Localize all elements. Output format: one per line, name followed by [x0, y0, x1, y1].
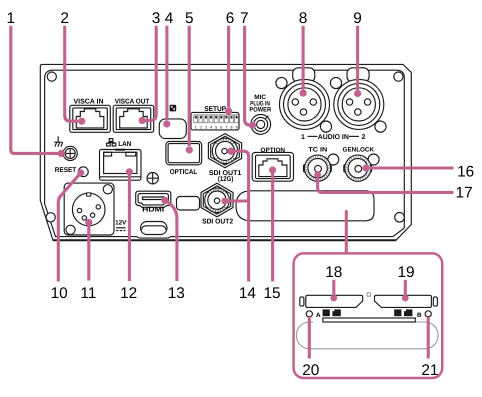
svg-text:AUDIO IN: AUDIO IN	[318, 134, 349, 141]
svg-text:21: 21	[421, 362, 438, 379]
svg-text:HDMI: HDMI	[142, 207, 164, 214]
svg-text:2: 2	[200, 125, 202, 129]
svg-text:RESET: RESET	[55, 167, 77, 174]
svg-text:2: 2	[60, 10, 69, 27]
svg-text:LAN: LAN	[118, 141, 131, 148]
svg-text:(12G): (12G)	[218, 175, 234, 183]
svg-text:12V: 12V	[115, 220, 127, 227]
svg-text:6: 6	[220, 125, 222, 129]
svg-text:2: 2	[362, 134, 366, 141]
svg-text:20: 20	[302, 362, 319, 379]
svg-text:5: 5	[185, 10, 194, 27]
svg-text:4: 4	[165, 10, 174, 27]
svg-text:3: 3	[205, 125, 207, 129]
svg-text:19: 19	[397, 264, 414, 281]
svg-text:16: 16	[457, 164, 474, 181]
svg-text:3: 3	[152, 10, 161, 27]
svg-text:11: 11	[80, 285, 96, 302]
svg-text:B: B	[417, 312, 422, 319]
svg-text:5: 5	[215, 125, 217, 129]
svg-text:10: 10	[51, 285, 68, 302]
svg-text:GENLOCK: GENLOCK	[343, 146, 375, 153]
svg-text:9: 9	[353, 10, 362, 27]
svg-text:1: 1	[195, 125, 197, 129]
svg-text:A: A	[316, 312, 321, 319]
svg-text:15: 15	[263, 285, 280, 302]
svg-text:TC IN: TC IN	[308, 146, 328, 153]
svg-text:12: 12	[120, 285, 137, 302]
svg-text:8: 8	[299, 10, 308, 27]
svg-text:14: 14	[239, 285, 257, 302]
svg-text:13: 13	[168, 285, 185, 302]
svg-text:6: 6	[226, 10, 235, 27]
svg-text:4: 4	[210, 125, 212, 129]
svg-text:7: 7	[240, 10, 249, 27]
svg-text:SDI OUT2: SDI OUT2	[202, 219, 233, 226]
svg-text:8: 8	[231, 125, 233, 129]
svg-text:7: 7	[225, 125, 227, 129]
svg-text:POWER: POWER	[249, 107, 271, 114]
svg-text:OPTICAL: OPTICAL	[170, 169, 198, 176]
svg-text:1: 1	[301, 134, 305, 141]
svg-text:VISCA OUT: VISCA OUT	[115, 99, 150, 106]
svg-text:9: 9	[236, 125, 238, 129]
svg-text:17: 17	[456, 184, 473, 201]
svg-text:1: 1	[7, 10, 16, 27]
svg-text:VISCA IN: VISCA IN	[74, 99, 104, 106]
svg-text:18: 18	[325, 264, 342, 281]
